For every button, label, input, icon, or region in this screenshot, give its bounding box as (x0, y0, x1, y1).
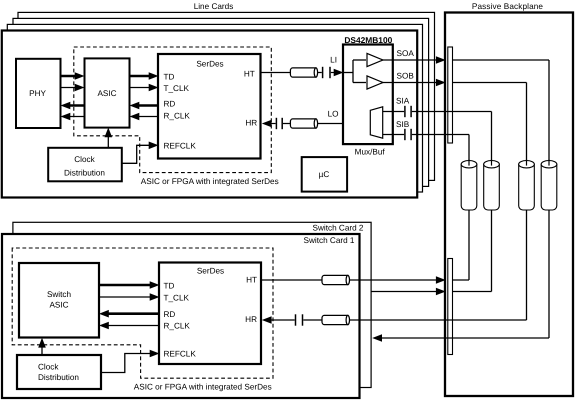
svg-text:HR: HR (245, 315, 257, 324)
svg-text:SerDes: SerDes (197, 267, 224, 276)
svg-text:LI: LI (330, 56, 337, 65)
svg-text:HR: HR (245, 119, 257, 128)
svg-text:R_CLK: R_CLK (164, 111, 191, 120)
svg-text:REFCLK: REFCLK (164, 350, 197, 359)
svg-text:RD: RD (164, 310, 176, 319)
svg-text:TD: TD (164, 281, 175, 290)
svg-text:Switch: Switch (47, 290, 72, 299)
svg-text:SIB: SIB (396, 120, 410, 129)
svg-text:Mux/Buf: Mux/Buf (355, 148, 386, 157)
svg-text:SIA: SIA (396, 96, 410, 105)
svg-text:Distribution: Distribution (38, 373, 79, 382)
svg-text:Switch Card 2: Switch Card 2 (313, 224, 364, 233)
svg-text:REFCLK: REFCLK (164, 141, 197, 150)
svg-text:Passive Backplane: Passive Backplane (472, 2, 544, 11)
svg-text:PHY: PHY (29, 89, 46, 98)
svg-text:Distribution: Distribution (64, 168, 105, 177)
svg-text:Line Cards: Line Cards (194, 2, 234, 11)
svg-text:LO: LO (328, 110, 339, 119)
svg-text:R_CLK: R_CLK (164, 322, 191, 331)
svg-text:T_CLK: T_CLK (164, 84, 190, 93)
svg-text:HT: HT (246, 275, 257, 284)
svg-text:ASIC or FPGA with integrated S: ASIC or FPGA with integrated SerDes (134, 382, 272, 391)
svg-text:µC: µC (319, 170, 330, 179)
svg-text:ASIC: ASIC (97, 89, 116, 98)
svg-text:Switch Card 1: Switch Card 1 (304, 236, 355, 245)
svg-text:SOA: SOA (397, 49, 415, 58)
svg-text:Clock: Clock (74, 155, 95, 164)
svg-text:Clock: Clock (38, 362, 59, 371)
svg-text:RD: RD (164, 99, 176, 108)
svg-text:T_CLK: T_CLK (164, 293, 190, 302)
svg-text:SerDes: SerDes (196, 60, 223, 69)
svg-text:ASIC or FPGA with integrated S: ASIC or FPGA with integrated SerDes (141, 177, 279, 186)
svg-text:ASIC: ASIC (49, 300, 68, 309)
svg-text:HT: HT (244, 69, 255, 78)
svg-text:TD: TD (164, 72, 175, 81)
svg-text:SOB: SOB (397, 72, 415, 81)
